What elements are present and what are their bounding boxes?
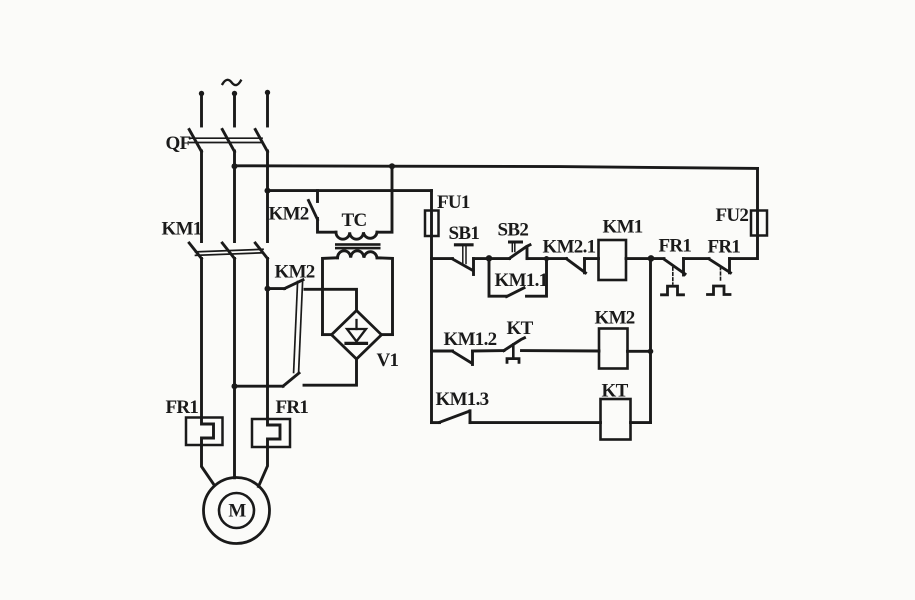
wire KT contact to KM2 coil: [522, 349, 600, 352]
wire phase C to FU1: [268, 189, 432, 192]
coil KM1: [599, 240, 627, 280]
node branch KM1.1 right: [544, 256, 549, 261]
contact KM1.3 tick: [469, 411, 472, 423]
wire left rail: [430, 259, 433, 423]
wire brake lower: [235, 385, 284, 388]
node branch KM1.1 left: [486, 255, 492, 261]
contact FR1 first actuator dash: [672, 268, 674, 285]
motor M inner circle: [219, 493, 254, 528]
node phase C tap: [265, 188, 271, 194]
node right rail middle: [648, 349, 654, 355]
supply terminal L1: [199, 91, 204, 126]
svg-text:FR1: FR1: [708, 237, 741, 258]
node KM2 stub: [316, 191, 319, 202]
fuse FU1 wire: [430, 191, 433, 259]
pushbutton SB2 plunger: [510, 242, 522, 252]
breaker QF linkage bar: [190, 138, 263, 142]
contact KM1.2 tick: [471, 351, 474, 365]
wire rung SB2 to KM2.1: [527, 257, 567, 260]
svg-text:KM2.1: KM2.1: [543, 237, 596, 258]
contact FR1 second tick: [728, 259, 731, 273]
wire phase A QF to KM1: [200, 151, 203, 242]
transformer TC secondary leads: [323, 258, 338, 335]
supply terminal L2: [232, 91, 237, 126]
thermal relay FR1 heater right: [252, 419, 290, 447]
wire rung SB1 to SB2: [474, 257, 510, 260]
wire phase A KM1 to FR1: [200, 259, 203, 418]
wire rung KM2.1 to coil: [585, 257, 599, 260]
contactor KM1 pole 2 blade: [222, 243, 234, 259]
wire rung coil to FR1: [626, 257, 664, 260]
transformer TC primary lead right: [377, 166, 392, 232]
node brake tap phase C: [265, 286, 271, 292]
contact KM1.1 blade: [507, 288, 525, 297]
coil KT: [601, 399, 631, 440]
wire phase B QF to KM1: [233, 151, 236, 242]
wire control top rail: [235, 166, 758, 169]
supply terminal L3: [265, 90, 270, 126]
pushbutton SB1 blade: [453, 259, 474, 271]
contact FR1 first tick: [682, 259, 685, 275]
wire KM1.3 to KT coil: [470, 421, 601, 424]
wire KM1.2 to KT contact: [473, 349, 504, 352]
contact KT delay stem: [512, 345, 515, 359]
svg-text:FU2: FU2: [716, 205, 749, 226]
wire FR1 left to motor: [202, 445, 215, 486]
wire branch KM1.3 left: [432, 421, 440, 424]
pushbutton SB2 blade: [510, 245, 531, 258]
wire right rail: [649, 259, 652, 423]
wire KT coil to right rail: [631, 421, 651, 424]
contactor KM1 linkage: [196, 249, 264, 255]
fuse FU1 body: [425, 211, 439, 237]
wire phase B KM1 to motor: [233, 259, 236, 478]
contact FR1 first blade: [664, 259, 685, 274]
svg-text:TC: TC: [342, 210, 367, 231]
wire branch KM1.2 left: [432, 350, 453, 353]
contact FR1 second blade: [709, 259, 731, 273]
wire rung FR1 to FR1: [684, 257, 710, 260]
wire FR1 right to motor: [259, 447, 268, 487]
contact KT blade: [504, 338, 525, 351]
rectifier V1 bridge frame: [323, 333, 332, 336]
svg-text:KM2: KM2: [275, 262, 315, 283]
svg-text:SB1: SB1: [449, 223, 480, 244]
contactor KM2 linkage: [294, 282, 303, 373]
breaker QF pole 2 blade: [222, 130, 234, 152]
contact KM1.2 blade: [453, 351, 472, 363]
transformer TC core: [335, 243, 381, 249]
svg-text:KM1.3: KM1.3: [436, 389, 489, 410]
svg-text:SB2: SB2: [498, 220, 529, 241]
wire brake upper: [268, 287, 285, 290]
svg-text:V1: V1: [377, 350, 399, 371]
node TC primary tap: [389, 163, 395, 169]
wire rung to FU2: [730, 168, 758, 258]
contact KM1.3 blade: [440, 412, 469, 423]
svg-text:KM2: KM2: [595, 308, 635, 329]
svg-text:QF: QF: [166, 133, 191, 154]
svg-text:FR1: FR1: [166, 397, 199, 418]
svg-text:KM1: KM1: [162, 219, 202, 240]
coil KM2: [599, 329, 628, 369]
svg-text:FR1: FR1: [276, 397, 309, 418]
contact KT delay bar: [507, 359, 519, 363]
breaker QF pole 1 blade: [189, 130, 201, 152]
wire DC positive: [305, 289, 357, 310]
svg-text:M: M: [228, 501, 246, 522]
breaker QF pole 3 blade: [255, 130, 267, 152]
svg-text:KM2: KM2: [269, 204, 309, 225]
contact FR1 second actuator dash: [720, 267, 722, 282]
svg-text:KM1.1: KM1.1: [495, 270, 548, 291]
contact KM1.1 branch left wire: [489, 258, 507, 296]
node right rail top: [648, 255, 655, 262]
contactor KM1 pole 3 blade: [255, 243, 267, 259]
wire DC negative: [304, 359, 357, 385]
contact KM2.1 right tick: [583, 259, 586, 273]
node control supply B: [232, 163, 238, 169]
transformer TC primary lead left: [318, 219, 337, 233]
pushbutton SB1 plunger: [456, 245, 473, 264]
contactor KM2 brake blade lower: [283, 373, 299, 386]
motor M outer circle: [204, 478, 270, 544]
pushbutton SB2 right tick: [526, 248, 529, 259]
contactor KM1 pole 1 blade: [189, 243, 201, 259]
thermal relay FR1 heater left: [186, 418, 223, 446]
wire KM2 coil to right rail: [628, 350, 651, 353]
rectifier V1 diode: [346, 320, 367, 343]
fuse FU2 body: [751, 211, 767, 236]
svg-text:KM1.2: KM1.2: [444, 329, 497, 350]
wire phase C KM1 to FR1: [266, 259, 269, 420]
contactor KM2 primary contact blade: [309, 201, 318, 220]
contactor KM2 brake blade upper: [285, 280, 304, 289]
wire rung left segment: [432, 257, 453, 260]
contact FR1 first thermal hook: [662, 286, 684, 295]
svg-text:FR1: FR1: [659, 236, 692, 257]
node brake tap phase B: [232, 383, 238, 389]
svg-text:KM1: KM1: [603, 217, 643, 238]
svg-text:FU1: FU1: [437, 192, 470, 213]
transformer TC primary winding: [336, 232, 377, 239]
AC tilde symbol: [223, 80, 241, 85]
pushbutton SB1 right tick: [472, 259, 475, 275]
svg-text:KT: KT: [507, 318, 534, 339]
contact KM1.1 branch right wire: [527, 259, 547, 297]
rectifier V1 diamond: [332, 311, 382, 360]
contact KM2.1 blade: [567, 259, 586, 273]
wire phase C QF to KM1: [266, 151, 269, 242]
svg-text:KT: KT: [602, 381, 629, 402]
contact FR1 second thermal hook: [708, 286, 731, 295]
transformer TC secondary winding: [338, 251, 378, 258]
